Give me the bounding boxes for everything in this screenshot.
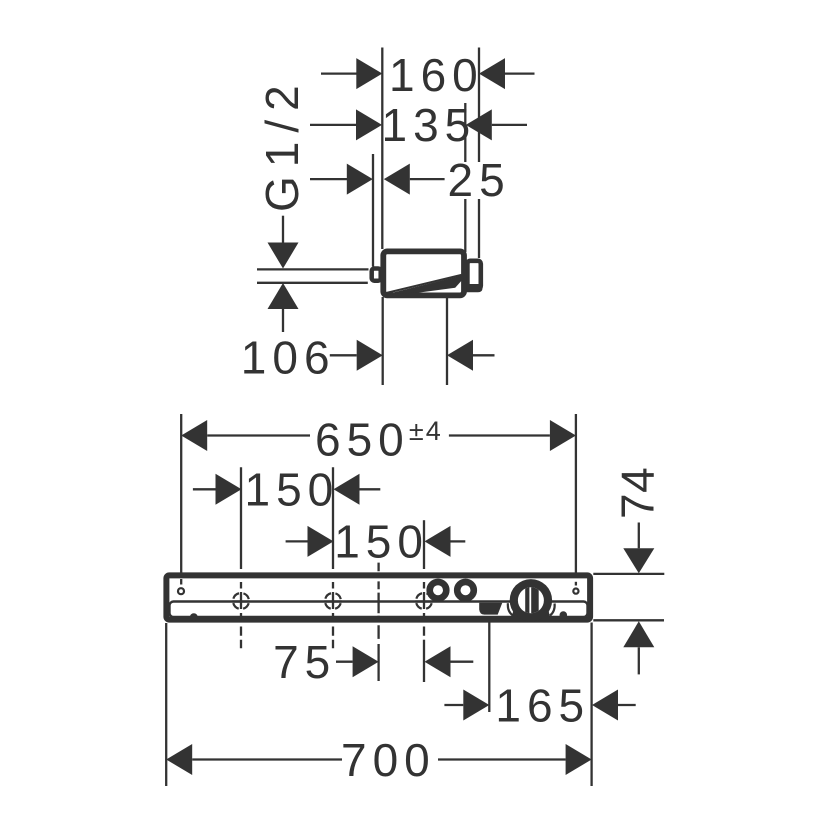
- arrow 106 left: [357, 340, 383, 371]
- tick inside bar under 650 left line: [180, 579, 182, 585]
- svg-text:G1/2: G1/2: [256, 76, 308, 212]
- arrow 650 right (points right): [550, 420, 576, 451]
- dim line 75 right tail: [451, 661, 474, 663]
- extension line right of 135 dim (x=465.3): [464, 103, 466, 162]
- tick inside bar under 650 right line: [575, 582, 577, 586]
- dim line 150b left tail: [286, 540, 308, 542]
- dim line 650 left tail: [207, 434, 310, 436]
- dim line 700 left tail: [192, 758, 342, 760]
- bar inner lower rail: [170, 602, 588, 618]
- dashed centerline x=241 through bar: [240, 582, 242, 648]
- dashed centerline x=424 through bar: [423, 582, 425, 636]
- extension line 650 right (x=575.9): [575, 414, 577, 573]
- dim line 75 left tail: [336, 661, 353, 663]
- dim line 25 left tail: [310, 178, 347, 180]
- select button trapezoid: [479, 603, 502, 615]
- 74 extension line bottom: [593, 619, 664, 621]
- svg-text:160: 160: [389, 49, 484, 101]
- dial outer ring: [510, 579, 552, 621]
- dim line 135 right tail: [492, 124, 527, 126]
- arrow 150a left: [216, 474, 242, 505]
- arrow 74 down: [623, 548, 654, 573]
- dim line 700 right tail: [438, 758, 566, 760]
- arrow 135 right: [466, 109, 492, 140]
- knob circle 2: [457, 582, 474, 599]
- svg-text:165: 165: [495, 679, 590, 731]
- knob circle 1: [430, 582, 447, 599]
- dial inner face: [518, 587, 544, 613]
- valve body: [383, 251, 464, 295]
- extension line left of 25 dim (x=373): [372, 154, 374, 267]
- valve right cap: [467, 261, 480, 289]
- dim line 135 left tail: [310, 124, 356, 126]
- arrow 165 right: [592, 690, 618, 721]
- extension line x=166.2 (bar left edge down): [165, 623, 167, 786]
- arrow 160 left: [356, 58, 382, 89]
- arrow 75 left: [353, 646, 379, 677]
- dim line 25 right tail: [410, 178, 445, 180]
- arrow 700 left (points left): [166, 744, 192, 775]
- dashed centerline x=378.6 through bar: [377, 563, 379, 639]
- arrow 150a right: [334, 474, 360, 505]
- svg-text:150: 150: [245, 464, 340, 516]
- crosshair 3: [415, 593, 432, 609]
- dim line 106 right tail: [473, 354, 495, 356]
- escutcheon arc right: [550, 604, 555, 616]
- G1/2 dim vertical tail above down-arrow: [282, 216, 284, 243]
- dim line 150a right tail: [360, 488, 381, 490]
- svg-text:650: 650: [315, 413, 410, 465]
- dim line 150a left tail: [193, 488, 216, 490]
- escutcheon arc left: [508, 603, 513, 615]
- arrow 150b right: [425, 526, 451, 557]
- svg-text:25: 25: [448, 154, 511, 206]
- dim line 165 right tail: [618, 704, 636, 706]
- valve handle lever: [385, 276, 465, 295]
- arrow 165 left: [463, 690, 489, 721]
- extension line x=489.3 (165 left, from button): [488, 615, 490, 712]
- pipe top line: [257, 268, 369, 270]
- extension line x=591.6 (bar right edge down): [590, 623, 592, 787]
- svg-text:75: 75: [273, 636, 336, 688]
- solid lower part of line x=424 (75/150 dim): [423, 640, 425, 682]
- dim line 150b right tail: [451, 540, 466, 542]
- pipe bottom line: [257, 282, 368, 284]
- arrow G1/2 down: [268, 243, 299, 269]
- valve right cap dark lower part: [465, 284, 482, 292]
- arrow 135 left: [356, 109, 382, 140]
- dial base flare: [511, 606, 550, 620]
- extension line below valve left (x=383): [382, 297, 384, 385]
- svg-text:74: 74: [612, 467, 664, 519]
- svg-text:150: 150: [334, 516, 429, 568]
- arrow G1/2 up: [268, 283, 299, 309]
- dim line 165 left tail: [444, 704, 463, 706]
- solid lower part of line x=378.6 (75 dim): [377, 644, 379, 681]
- arrow 25 left: [347, 164, 373, 195]
- valve left tab: [372, 269, 381, 281]
- bar body outer: [166, 575, 590, 619]
- dot right: [560, 611, 568, 619]
- arrow 700 right (points right): [566, 744, 592, 775]
- arrow 160 right: [479, 58, 505, 89]
- dim line 160 left tail: [321, 72, 357, 74]
- G1/2 dim vertical tail below up-arrow: [282, 309, 284, 332]
- valve handle top edge line: [385, 275, 462, 294]
- mounting hole left: [178, 588, 184, 594]
- arrow 106 right: [447, 340, 473, 371]
- arrow 650 left (points left): [181, 420, 207, 451]
- dim line 106 left tail: [330, 354, 357, 356]
- 74 tail above down-arrow: [638, 523, 640, 549]
- svg-text:700: 700: [341, 734, 436, 786]
- 74 tail below up-arrow: [638, 647, 640, 674]
- arrow 25 right: [384, 164, 410, 195]
- svg-text:135: 135: [382, 99, 477, 151]
- 74 extension line top: [593, 573, 664, 575]
- extension line below valve right (x=447): [446, 297, 448, 385]
- dim line 160 right tail: [505, 72, 535, 74]
- crosshair 1: [232, 593, 249, 609]
- extension line 150b right (x=424) upper solid: [423, 520, 425, 569]
- extension line 150a right (x=333) upper solid: [332, 467, 334, 569]
- dashed centerline x=333 through bar: [332, 582, 334, 648]
- arrow 150b left: [308, 526, 334, 557]
- extension line left of 160/135 dims (x=382): [381, 48, 383, 250]
- extension line 650 left (x=181.2): [180, 414, 182, 573]
- dot left: [190, 613, 198, 621]
- extension line right of 160 dim (x=479): [478, 48, 480, 163]
- arrow 74 up: [623, 621, 654, 647]
- svg-text:±4: ±4: [409, 416, 443, 446]
- crosshair 2: [324, 593, 341, 609]
- mounting hole right: [573, 589, 578, 594]
- extension line 150a left (x=241) upper solid: [240, 467, 242, 569]
- dim line 650 right tail: [449, 434, 550, 436]
- svg-text:106: 106: [241, 332, 336, 384]
- arrow 75 right: [425, 646, 451, 677]
